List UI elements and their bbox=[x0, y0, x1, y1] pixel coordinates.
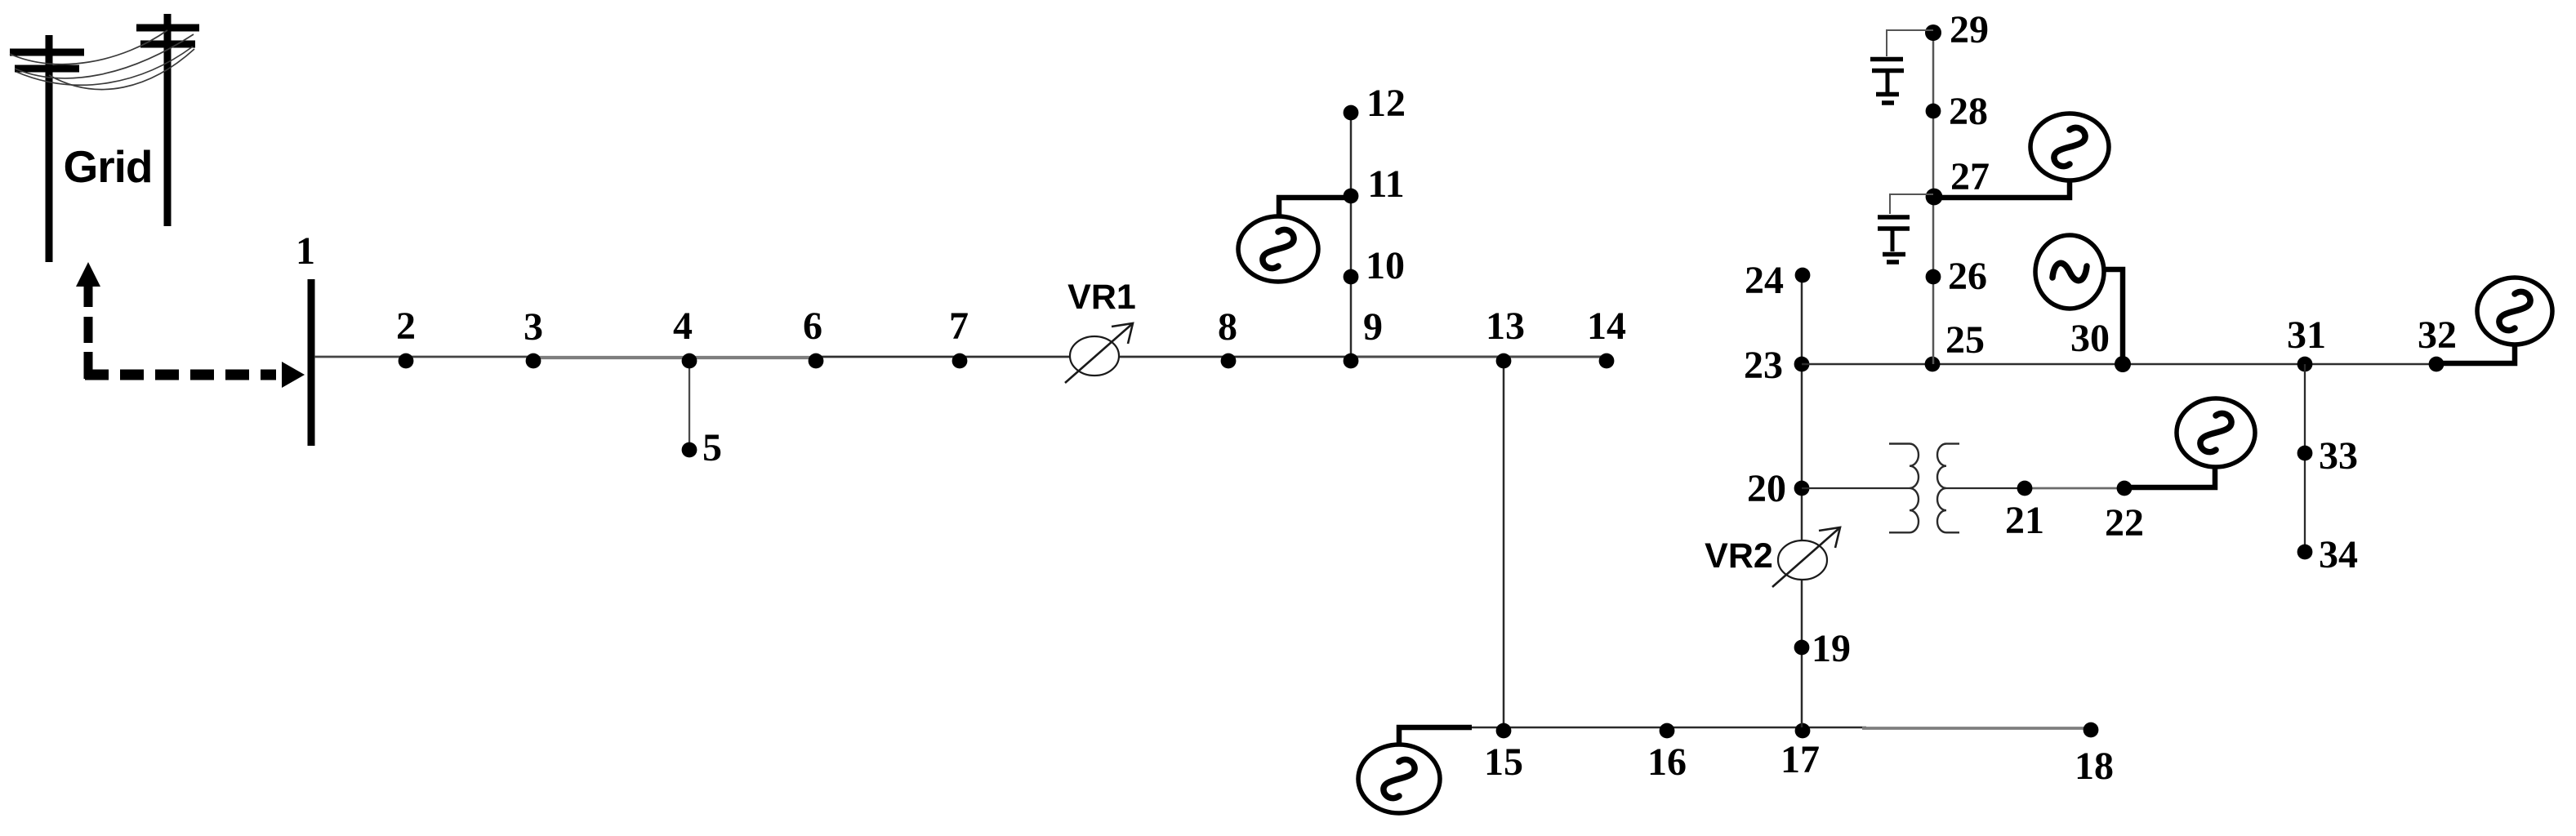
svg-text:34: 34 bbox=[2319, 533, 2358, 576]
svg-text:20: 20 bbox=[1747, 467, 1786, 510]
bus 1 bar bbox=[308, 279, 315, 446]
svg-text:14: 14 bbox=[1587, 305, 1626, 348]
dashed arrow: vertical dashes bbox=[84, 286, 93, 379]
generator G3 lead (node 27) bbox=[1934, 181, 2070, 198]
svg-text:23: 23 bbox=[1744, 344, 1783, 387]
node 23 bbox=[1794, 357, 1810, 372]
wire 17-24 vertical bbox=[1801, 274, 1803, 727]
node 16 bbox=[1660, 723, 1675, 739]
svg-text:25: 25 bbox=[1945, 318, 1985, 362]
wire node 3 to node 6 bbox=[533, 356, 816, 359]
node 31 bbox=[2297, 357, 2313, 372]
wire 31-34 vertical bbox=[2304, 364, 2306, 552]
svg-text:21: 21 bbox=[2005, 499, 2044, 542]
svg-text:5: 5 bbox=[702, 426, 722, 469]
node 27 bbox=[1926, 189, 1943, 206]
generator G1 lead (node 11) bbox=[1279, 198, 1351, 217]
node 24 bbox=[1795, 268, 1811, 283]
svg-text:30: 30 bbox=[2070, 317, 2110, 360]
node 19 bbox=[1794, 640, 1810, 656]
generator G2 lead (node 15) bbox=[1399, 727, 1472, 745]
node 30 bbox=[2115, 356, 2131, 372]
node 29 bbox=[1925, 24, 1941, 41]
generator G2 bbox=[1358, 745, 1440, 813]
feeder 2 wire 15-17 bbox=[1472, 727, 1866, 729]
svg-text:18: 18 bbox=[2075, 745, 2114, 788]
capacitor C2 with ground bbox=[1878, 217, 1910, 262]
svg-text:31: 31 bbox=[2287, 313, 2326, 357]
dashed arrow head right bbox=[282, 362, 305, 388]
node 20 bbox=[1794, 481, 1810, 496]
generator G5 lead (node 22) bbox=[2124, 469, 2215, 487]
generator G1 bbox=[1238, 216, 1318, 282]
node 34 bbox=[2297, 545, 2313, 560]
node 5 bbox=[682, 442, 697, 458]
svg-text:19: 19 bbox=[1812, 627, 1851, 670]
node 2 bbox=[399, 354, 414, 369]
node 9 bbox=[1344, 354, 1359, 369]
svg-text:4: 4 bbox=[673, 305, 693, 348]
svg-text:22: 22 bbox=[2105, 501, 2144, 545]
wire 13-15 vertical bbox=[1503, 357, 1505, 727]
svg-text:13: 13 bbox=[1486, 305, 1525, 348]
node 6 bbox=[809, 354, 824, 369]
dashed arrow to grid: horizontal dashes bbox=[85, 370, 276, 380]
node 10 bbox=[1344, 269, 1359, 285]
generator G5 bbox=[2177, 398, 2255, 467]
svg-text:3: 3 bbox=[524, 305, 543, 349]
wire 9-12 vertical bbox=[1350, 113, 1353, 357]
node 28 bbox=[1926, 104, 1941, 119]
svg-text:27: 27 bbox=[1950, 155, 1990, 198]
node 7 bbox=[952, 354, 968, 369]
transformer T1 primary winding bbox=[1889, 444, 1919, 533]
wire 25-29 vertical bbox=[1932, 33, 1935, 364]
grid utility pole right bbox=[136, 14, 199, 226]
VR2 regulator bbox=[1772, 527, 1840, 587]
wire 21-22 bbox=[2025, 487, 2124, 490]
node 21 bbox=[2017, 481, 2033, 496]
wire 20-transformer bbox=[1802, 487, 1910, 489]
node 15 bbox=[1496, 723, 1512, 739]
node 32 bbox=[2429, 357, 2445, 372]
grid utility pole left bbox=[10, 35, 84, 262]
generator G4 bbox=[2035, 235, 2104, 309]
svg-text:Grid: Grid bbox=[63, 141, 152, 192]
wire bus1 to node 3 bbox=[314, 356, 533, 358]
svg-text:2: 2 bbox=[396, 305, 416, 348]
wire 23-32 horizontal bbox=[1802, 363, 2442, 366]
wire node 9 to node 14 bbox=[1351, 356, 1607, 358]
node 14 bbox=[1599, 354, 1615, 369]
generator G6 lead (node 32) bbox=[2436, 345, 2515, 363]
node 12 bbox=[1344, 105, 1359, 121]
capacitor C1 lead (node 29) bbox=[1887, 30, 1933, 56]
transformer T1 secondary winding bbox=[1937, 444, 1959, 533]
svg-text:10: 10 bbox=[1366, 244, 1405, 287]
generator G3 bbox=[2030, 113, 2109, 180]
node 4 bbox=[682, 354, 697, 369]
node 17 bbox=[1795, 723, 1811, 739]
grid wires bbox=[10, 30, 194, 90]
svg-text:26: 26 bbox=[1948, 255, 1987, 298]
wire 4-5 bbox=[689, 357, 690, 447]
node 22 bbox=[2117, 481, 2133, 496]
svg-text:12: 12 bbox=[1366, 82, 1406, 125]
svg-text:29: 29 bbox=[1950, 8, 1989, 51]
capacitor C2 lead (node 27) bbox=[1890, 194, 1933, 214]
feeder 2 wire 17-18 bbox=[1862, 727, 2091, 730]
svg-text:33: 33 bbox=[2319, 434, 2358, 478]
svg-text:1: 1 bbox=[296, 229, 315, 273]
svg-text:8: 8 bbox=[1218, 305, 1237, 349]
capacitor C1 with ground bbox=[1870, 60, 1904, 104]
svg-text:32: 32 bbox=[2418, 313, 2457, 357]
node 18 bbox=[2084, 723, 2099, 738]
svg-text:6: 6 bbox=[803, 305, 822, 348]
dashed arrow head up bbox=[76, 262, 100, 287]
svg-text:9: 9 bbox=[1363, 305, 1383, 349]
node 26 bbox=[1926, 269, 1941, 285]
VR1 regulator bbox=[1065, 323, 1133, 383]
node 33 bbox=[2297, 446, 2313, 461]
wire node 6 to node 9 bbox=[816, 356, 1351, 358]
wire transformer-21 bbox=[1946, 487, 2025, 489]
svg-text:VR1: VR1 bbox=[1067, 278, 1136, 317]
svg-text:VR2: VR2 bbox=[1705, 536, 1773, 576]
generator G4 lead (node 30) bbox=[2104, 269, 2123, 364]
svg-text:28: 28 bbox=[1949, 90, 1988, 133]
node 8 bbox=[1221, 354, 1237, 369]
svg-text:11: 11 bbox=[1367, 162, 1404, 206]
svg-text:24: 24 bbox=[1745, 259, 1784, 302]
node 25 bbox=[1925, 357, 1941, 372]
node 13 bbox=[1496, 354, 1512, 369]
node 3 bbox=[526, 354, 541, 369]
svg-text:17: 17 bbox=[1780, 738, 1820, 781]
svg-text:16: 16 bbox=[1647, 740, 1687, 784]
generator G6 bbox=[2477, 278, 2552, 345]
svg-text:7: 7 bbox=[949, 305, 969, 348]
svg-text:15: 15 bbox=[1484, 740, 1523, 784]
node 11 bbox=[1344, 189, 1359, 204]
